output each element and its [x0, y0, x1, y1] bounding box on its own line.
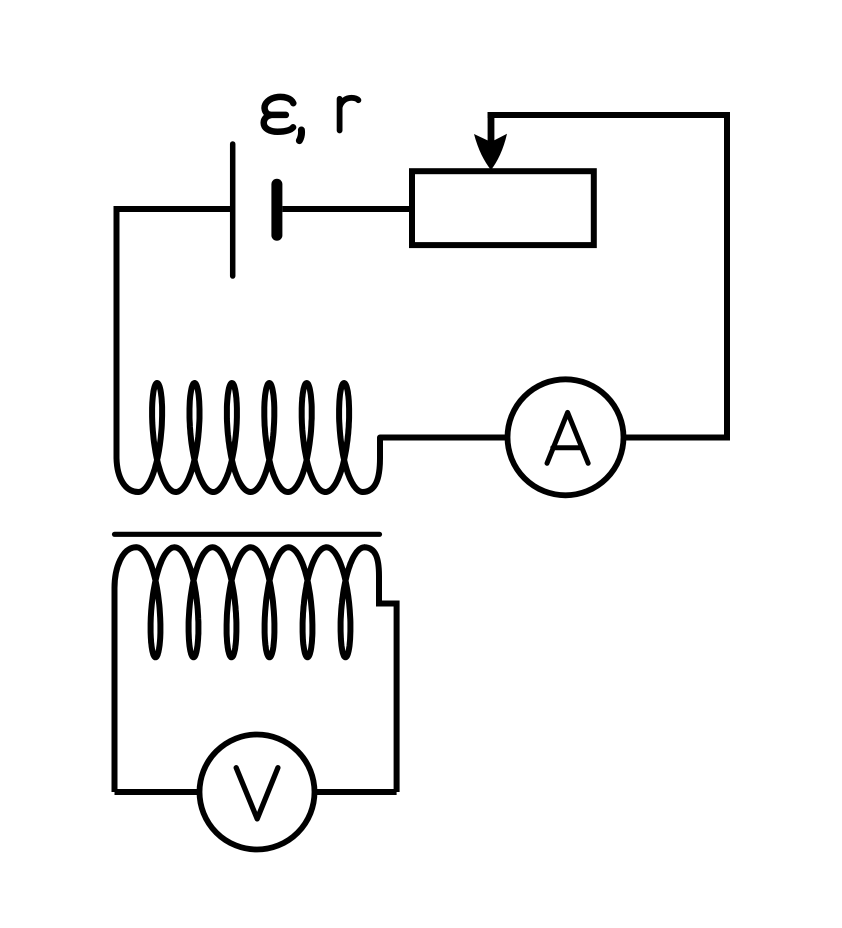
wire left vertical + primary coil entry [117, 206, 139, 492]
secondary coil L2 [137, 547, 365, 657]
rheostat wiper arrow shaft + top wire + right wire [488, 115, 727, 438]
battery short thick plate [271, 184, 282, 235]
voltmeter letter V [236, 768, 278, 819]
ammeter A circle [508, 379, 624, 495]
bottom rail left [115, 789, 201, 795]
battery long plate [230, 144, 236, 276]
wire battery to rheostat [283, 206, 410, 212]
primary coil L1 [138, 383, 362, 492]
rheostat box R [412, 171, 594, 245]
secondary coil entry + left wire [115, 547, 137, 792]
voltmeter V circle [200, 735, 315, 850]
label epsilon, r [264, 97, 359, 141]
secondary coil exit jog + right wire down [364, 547, 397, 792]
core bar [115, 532, 380, 537]
bottom rail right [315, 789, 397, 795]
arrowhead [474, 134, 507, 170]
wire battery left to corner [117, 206, 231, 212]
primary coil exit to ammeter wire [362, 438, 507, 493]
ammeter letter A [547, 412, 588, 463]
